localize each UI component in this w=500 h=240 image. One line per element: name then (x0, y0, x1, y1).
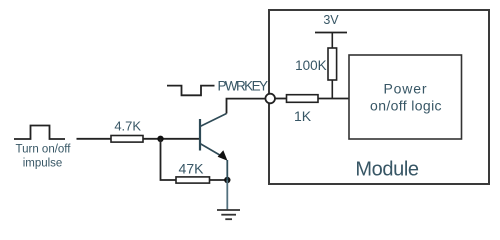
wire: input to R 4.7K (77, 138, 112, 140)
node: PWRKEY pin circle (265, 94, 275, 104)
resistor 100K (328, 48, 337, 80)
wire: pin to 1K (275, 98, 287, 100)
wire: node to ground (226, 180, 228, 210)
ground (217, 210, 240, 219)
3V supply rail (315, 32, 347, 34)
resistor 1K (287, 95, 319, 103)
svg-text:100K: 100K (295, 58, 327, 73)
svg-text:Module: Module (355, 158, 418, 180)
wire: base node down to 47K (161, 139, 177, 180)
svg-text:4.7K: 4.7K (114, 118, 141, 133)
wire: 1K to logic box (318, 98, 349, 100)
module box (269, 10, 489, 184)
wire: R 4.7K to transistor base (143, 138, 200, 140)
svg-text:47K: 47K (179, 160, 205, 176)
svg-text:on/off logic: on/off logic (370, 97, 442, 113)
input impulse waveform (14, 126, 65, 140)
wire: 100K lower lead (331, 80, 333, 99)
svg-text:Power: Power (384, 81, 427, 97)
svg-text:Turn on/off: Turn on/off (16, 144, 72, 156)
emitter arrow head (218, 150, 228, 161)
resistor 4.7K (111, 136, 143, 143)
wire: 100K upper lead (331, 33, 333, 48)
PWRKEY negative pulse waveform (167, 86, 215, 96)
svg-text:PWRKEY: PWRKEY (218, 79, 269, 94)
wire: 47K to emitter node (210, 179, 228, 181)
svg-text:3V: 3V (323, 13, 339, 27)
resistor 47K (176, 177, 210, 183)
transistor Q1 (NPN) (200, 114, 227, 158)
svg-text:1K: 1K (294, 108, 312, 124)
power on/off logic box (349, 55, 462, 139)
svg-text:impulse: impulse (23, 158, 63, 170)
wire: emitter arrow to node (226, 160, 228, 180)
node junction at emitter (224, 177, 230, 183)
wire: collector riser to PWRKEY node (227, 99, 265, 114)
node junction at base wire (157, 136, 163, 142)
